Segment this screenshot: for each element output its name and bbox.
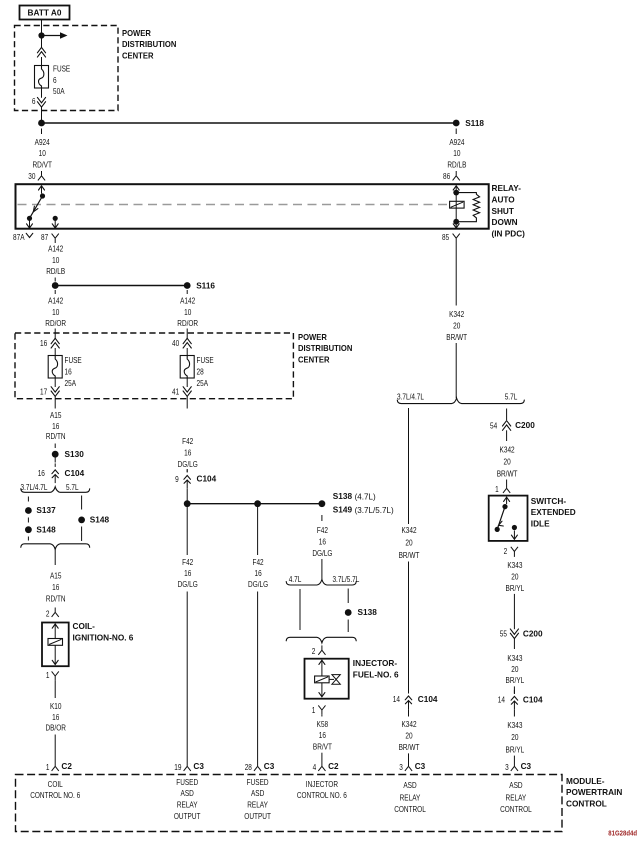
svg-text:S138: S138 [333,491,353,501]
svg-text:SHUT: SHUT [492,206,515,216]
svg-text:BATT A0: BATT A0 [28,8,62,18]
svg-text:4.7L: 4.7L [289,574,302,584]
svg-text:S130: S130 [65,449,85,459]
svg-text:OUTPUT: OUTPUT [244,811,271,821]
svg-text:9: 9 [175,474,179,484]
svg-text:28: 28 [245,762,252,772]
svg-text:EXTENDED: EXTENDED [531,507,576,517]
svg-text:10: 10 [52,255,59,265]
svg-text:BR/YL: BR/YL [506,675,525,685]
svg-text:4: 4 [313,762,317,772]
svg-text:RELAY: RELAY [506,792,527,802]
svg-text:2: 2 [504,546,508,556]
svg-text:ASD: ASD [509,780,522,790]
svg-text:10: 10 [184,307,191,317]
svg-text:S137: S137 [36,505,56,515]
svg-text:K342: K342 [401,719,416,729]
svg-text:14: 14 [393,694,400,704]
svg-text:SWITCH-: SWITCH- [531,496,566,506]
svg-text:DG/LG: DG/LG [312,548,332,558]
svg-text:20: 20 [511,664,518,674]
svg-text:A142: A142 [48,244,63,254]
svg-text:C200: C200 [523,629,543,639]
svg-text:RD/OR: RD/OR [177,318,198,328]
svg-text:C2: C2 [61,761,72,771]
svg-text:16: 16 [52,421,59,431]
svg-text:S138: S138 [358,607,378,617]
svg-text:BR/WT: BR/WT [399,550,420,560]
svg-text:16: 16 [65,366,72,376]
svg-text:40: 40 [172,338,179,348]
svg-text:IGNITION-NO. 6: IGNITION-NO. 6 [73,633,134,643]
svg-text:RD/TN: RD/TN [46,431,66,441]
svg-text:16: 16 [319,536,326,546]
svg-text:BR/VT: BR/VT [313,742,332,752]
svg-text:CONTROL: CONTROL [500,804,532,814]
svg-text:C2: C2 [328,761,339,771]
svg-text:28: 28 [197,366,204,376]
svg-text:A15: A15 [50,410,62,420]
svg-text:DG/LG: DG/LG [178,459,198,469]
svg-text:FUSE: FUSE [197,355,214,365]
svg-text:S148: S148 [90,515,110,525]
svg-text:3: 3 [505,762,509,772]
svg-text:16: 16 [52,582,59,592]
svg-text:MODULE-: MODULE- [566,776,605,786]
svg-text:20: 20 [405,538,412,548]
svg-text:16: 16 [255,568,262,578]
svg-text:RELAY: RELAY [400,792,421,802]
svg-text:(3.7L/5.7L): (3.7L/5.7L) [355,505,394,515]
svg-text:16: 16 [52,712,59,722]
svg-text:50A: 50A [53,86,65,96]
svg-text:C3: C3 [193,761,204,771]
svg-text:POWERTRAIN: POWERTRAIN [566,787,622,797]
svg-text:S148: S148 [36,525,56,535]
svg-text:C104: C104 [523,695,543,705]
svg-text:10: 10 [39,148,46,158]
svg-text:CENTER: CENTER [298,355,330,365]
svg-text:C104: C104 [197,474,217,484]
svg-text:3: 3 [399,762,403,772]
svg-text:16: 16 [184,568,191,578]
svg-text:A142: A142 [48,295,63,305]
svg-text:3.7L/5.7L: 3.7L/5.7L [332,574,359,584]
svg-text:RD/OR: RD/OR [45,318,66,328]
svg-text:(IN PDC): (IN PDC) [492,228,526,238]
svg-text:C104: C104 [65,468,85,478]
svg-text:K342: K342 [449,309,464,319]
svg-text:K10: K10 [50,701,62,711]
svg-text:1: 1 [46,762,50,772]
svg-text:CONTROL: CONTROL [566,799,607,809]
svg-text:41: 41 [172,386,179,396]
svg-text:RD/VT: RD/VT [33,160,52,170]
svg-text:A142: A142 [180,295,195,305]
svg-text:25A: 25A [65,378,77,388]
svg-text:16: 16 [38,468,45,478]
svg-text:3.7L/4.7L: 3.7L/4.7L [397,391,424,401]
svg-text:16: 16 [184,447,191,457]
svg-text:RD/LB: RD/LB [46,266,65,276]
svg-text:K343: K343 [507,653,522,663]
svg-text:BR/YL: BR/YL [506,583,525,593]
svg-text:3.7L/4.7L: 3.7L/4.7L [21,482,48,492]
svg-text:DOWN: DOWN [492,217,518,227]
svg-text:FUSE: FUSE [53,64,70,74]
svg-text:K343: K343 [507,560,522,570]
svg-text:C3: C3 [415,761,426,771]
svg-text:S116: S116 [196,280,215,290]
svg-text:16: 16 [319,730,326,740]
svg-text:S149: S149 [333,505,353,515]
svg-text:6: 6 [53,75,57,85]
svg-text:RELAY-: RELAY- [492,183,522,193]
svg-text:DB/OR: DB/OR [45,723,66,733]
svg-text:RD/LB: RD/LB [447,160,466,170]
svg-text:20: 20 [453,320,460,330]
svg-text:54: 54 [490,420,497,430]
svg-text:A924: A924 [35,137,50,147]
svg-text:CONTROL NO. 6: CONTROL NO. 6 [30,790,80,800]
svg-text:F42: F42 [182,557,193,567]
svg-text:5.7L: 5.7L [66,482,79,492]
svg-text:1: 1 [312,705,316,715]
svg-text:FUSED: FUSED [247,777,269,787]
svg-text:COIL: COIL [48,779,63,789]
svg-text:RELAY: RELAY [177,800,198,810]
svg-text:CONTROL NO. 6: CONTROL NO. 6 [297,790,347,800]
svg-text:A15: A15 [50,571,62,581]
svg-text:20: 20 [405,731,412,741]
svg-text:87A: 87A [13,232,25,242]
svg-text:POWER: POWER [298,332,327,342]
svg-text:85: 85 [442,232,449,242]
svg-text:FUSED: FUSED [176,777,198,787]
svg-text:K342: K342 [401,525,416,535]
svg-text:C3: C3 [264,761,275,771]
svg-text:ASD: ASD [181,788,194,798]
svg-text:BR/WT: BR/WT [399,742,420,752]
svg-text:1: 1 [46,670,50,680]
svg-text:25A: 25A [197,378,209,388]
svg-text:10: 10 [453,148,460,158]
svg-text:IDLE: IDLE [531,519,550,529]
svg-text:OUTPUT: OUTPUT [174,811,201,821]
svg-text:20: 20 [504,456,511,466]
svg-text:2: 2 [312,646,316,656]
svg-text:FUSE: FUSE [65,355,82,365]
svg-text:DG/LG: DG/LG [178,579,198,589]
svg-text:14: 14 [498,695,505,705]
svg-text:10: 10 [52,307,59,317]
svg-text:1: 1 [495,484,499,494]
svg-text:20: 20 [511,732,518,742]
svg-text:BR/WT: BR/WT [497,468,518,478]
svg-text:CENTER: CENTER [122,51,154,61]
svg-text:F42: F42 [253,557,264,567]
svg-text:2: 2 [46,609,50,619]
svg-text:87: 87 [41,232,48,242]
svg-text:F42: F42 [182,436,193,446]
svg-text:K343: K343 [507,720,522,730]
svg-text:DISTRIBUTION: DISTRIBUTION [298,343,352,353]
svg-text:ASD: ASD [251,788,264,798]
svg-text:RELAY: RELAY [247,800,268,810]
svg-text:S118: S118 [465,118,484,128]
svg-text:F42: F42 [317,525,328,535]
svg-text:55: 55 [500,629,507,639]
svg-text:20: 20 [511,571,518,581]
svg-text:DISTRIBUTION: DISTRIBUTION [122,39,176,49]
svg-text:81G28d4d: 81G28d4d [608,829,637,838]
svg-text:6: 6 [32,96,36,106]
svg-text:86: 86 [443,171,450,181]
svg-text:16: 16 [40,338,47,348]
svg-text:(4.7L): (4.7L) [355,491,376,501]
svg-text:BR/YL: BR/YL [506,745,525,755]
svg-text:INJECTOR: INJECTOR [306,779,338,789]
svg-text:A924: A924 [449,137,464,147]
svg-text:K58: K58 [317,719,329,729]
svg-text:COIL-: COIL- [73,621,96,631]
svg-text:ASD: ASD [403,780,416,790]
svg-text:19: 19 [174,762,181,772]
svg-text:BR/WT: BR/WT [446,332,467,342]
svg-text:CONTROL: CONTROL [394,804,426,814]
svg-text:C104: C104 [418,694,438,704]
svg-text:POWER: POWER [122,28,151,38]
svg-text:5.7L: 5.7L [505,391,518,401]
svg-text:RD/TN: RD/TN [46,593,66,603]
svg-text:C200: C200 [515,420,535,430]
svg-text:DG/LG: DG/LG [248,579,268,589]
svg-text:30: 30 [28,171,35,181]
svg-text:AUTO: AUTO [492,194,516,204]
svg-text:C3: C3 [521,761,532,771]
svg-text:17: 17 [40,386,47,396]
svg-text:K342: K342 [500,444,515,454]
svg-text:FUEL-NO. 6: FUEL-NO. 6 [353,670,399,680]
svg-text:INJECTOR-: INJECTOR- [353,658,397,668]
